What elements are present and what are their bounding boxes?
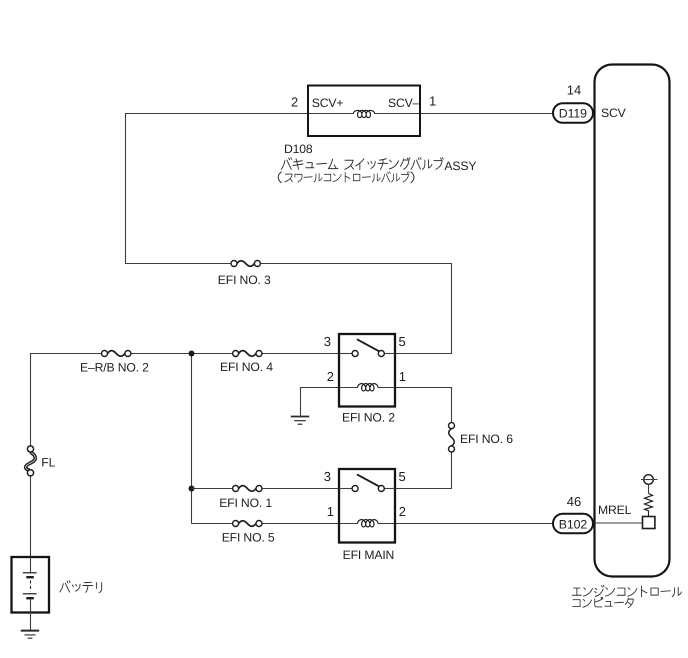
label バッテリ (battery) [60,581,102,593]
fusible link EFI NO.6 (vertical) [449,423,455,452]
relay EFI NO.2 switch wire pin5 side [384,353,395,355]
svg-text:2: 2 [399,504,406,519]
svg-text:MREL: MREL [598,503,632,517]
svg-text:5: 5 [399,469,406,484]
battery cell plates [23,573,37,598]
svg-text:SCV–: SCV– [388,96,420,110]
connector oval B102 [553,514,593,534]
MREL terminal circle [644,475,654,485]
svg-text:2: 2 [291,94,298,109]
svg-text:3: 3 [324,334,331,349]
svg-text:D108: D108 [284,142,313,156]
svg-text:3: 3 [324,469,331,484]
MREL input square [643,517,655,529]
fusible link FL (vertical, heavy) [26,446,36,476]
wire: vertical x452 down to relay pin5 [451,264,453,354]
svg-text:EFI NO. 6: EFI NO. 6 [460,432,513,446]
wire: left vertical battery feed [30,354,32,446]
svg-text:ASSY: ASSY [444,159,476,173]
fuse EFI NO.3 [231,261,260,267]
svg-text:EFI NO. 4: EFI NO. 4 [220,360,273,374]
relay EFI NO.2 switch arm [357,339,379,351]
svg-text:SCV: SCV [601,106,627,120]
relay EFI MAIN coil [358,520,379,527]
wire: left vertical drop from pin2 [125,114,127,264]
svg-text:1: 1 [399,369,406,384]
wire: EFI MAIN pin2 to B102 [378,523,554,525]
fuse EFI NO.5 [233,521,262,527]
label D108 valve name バキューム スイッチング バルブASSY [281,158,338,170]
connector oval D119 [553,103,593,123]
fuse EFI NO.4 [233,351,262,357]
svg-text:2: 2 [327,369,334,384]
svg-text:EFI NO. 5: EFI NO. 5 [222,530,275,544]
relay EFI MAIN switch wire pin5 side [384,488,395,490]
wire: EFI NO.3 row [125,263,231,265]
wire: EFI NO.6 to EFI MAIN pin5 [395,452,452,489]
svg-text:5: 5 [399,334,406,349]
relay EFI NO.2 switch wire pin3 side [339,353,352,355]
wire: D108 coil to D119 connector [375,113,555,115]
wire: main B+ row y353 [30,353,101,355]
battery internal bottom lead [30,599,32,631]
svg-text:EFI MAIN: EFI MAIN [343,548,395,562]
junction at 191,488 [189,486,195,492]
svg-text:E–R/B NO. 2: E–R/B NO. 2 [80,361,149,375]
label エンジンコントロール (ECU name line 1) [572,585,681,597]
fuse E-R/B NO.2 [102,351,131,357]
battery box [12,557,50,613]
svg-text:1: 1 [429,94,436,109]
svg-text:SCV+: SCV+ [312,96,344,110]
label (スワールコントロールバルブ) [278,172,281,183]
svg-text:EFI NO. 2: EFI NO. 2 [342,411,395,425]
fuse EFI NO.1 [233,486,262,492]
MREL terminal crossbar [641,479,658,481]
wire: EFI NO.1 row [192,488,233,490]
svg-text:FL: FL [41,456,55,470]
svg-text:1: 1 [327,504,334,519]
svg-text:EFI NO. 3: EFI NO. 3 [218,273,271,287]
relay EFI NO.2 switch contacts [352,351,358,357]
wire: D108 pin2 to left vertical [125,113,354,115]
label コンピュータ (ECU name line 2) [573,597,634,607]
battery internal top lead [30,557,32,572]
relay EFI MAIN switch contacts [352,486,358,492]
relay EFI MAIN box [339,469,395,543]
wire: EFI NO.2 pin5 to x452 [395,353,452,355]
D108 valve box [308,86,420,137]
relay EFI MAIN switch arm [357,474,379,486]
svg-text:D119: D119 [559,107,587,121]
ground symbol (EFI NO.2 relay) [291,417,309,425]
svg-text:46: 46 [567,494,581,509]
resistor (MREL pull) [645,494,653,517]
relay EFI MAIN switch wire pin3 side [339,488,352,490]
junction at 191,353 [189,351,195,357]
MREL lead circle to resistor [648,484,650,493]
svg-text:14: 14 [567,82,581,97]
svg-text:B102: B102 [559,517,588,531]
relay EFI NO.2 box [339,334,395,407]
ground symbol (battery) [21,631,39,639]
wire: distribution vertical x191 [191,354,193,524]
relay EFI NO.2 coil wire [339,387,358,389]
svg-text:EFI NO. 1: EFI NO. 1 [219,496,272,510]
coil L1 inside D108 [353,110,374,117]
relay EFI NO.2 coil [358,384,379,391]
wire: EFI NO.2 pin2 to ground [301,388,340,416]
wire: EFI NO.2 pin1 to EFI NO.6 [395,388,452,423]
ECU body (engine control computer) [595,65,670,577]
wire: B102 to MREL square [592,522,643,524]
wire: EFI NO.5 row [192,523,233,525]
